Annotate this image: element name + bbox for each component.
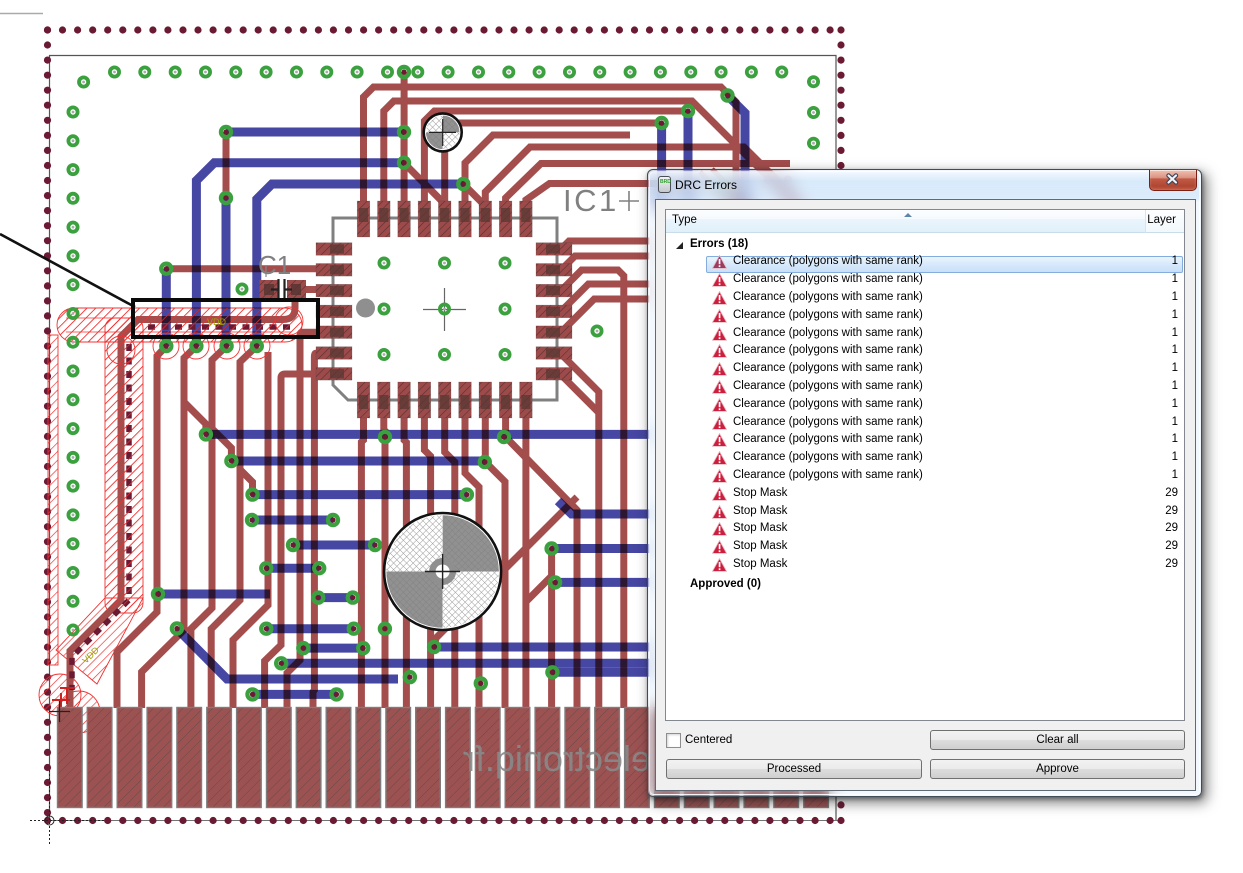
right pad row6 diag <box>553 353 599 708</box>
blue y520 <box>252 516 333 525</box>
pad top 2 <box>378 201 391 237</box>
fan F5 <box>191 346 227 708</box>
pad bottom 9 <box>520 382 533 418</box>
pad top 1 <box>357 201 370 237</box>
fan F4 <box>142 346 197 708</box>
finger 7 <box>237 708 262 808</box>
pad bottom 1 <box>357 382 370 418</box>
blue y548 <box>552 544 650 553</box>
bottom pads to fingers <box>361 412 363 708</box>
blue y628 <box>266 624 354 633</box>
wire via B-D <box>401 132 408 163</box>
finger 25 <box>774 708 799 808</box>
wire via D diagonal to pad5 <box>404 163 445 205</box>
blue y582 <box>555 578 650 587</box>
svg-text:electroniq.fr: electroniq.fr <box>463 738 651 779</box>
pad top 6 <box>459 201 472 237</box>
finger 11 <box>356 708 381 808</box>
wire top bundle L7 <box>506 164 790 206</box>
blue y597 <box>318 593 353 602</box>
finger 14 <box>446 708 471 808</box>
blue verticals into dialog <box>657 123 666 210</box>
blue y648 <box>303 644 363 653</box>
wire top bundle L4 <box>445 123 660 205</box>
wire top bundle L5 <box>465 135 630 205</box>
blue y461 <box>231 457 484 466</box>
wire via E diagonal to pad6 <box>463 184 485 206</box>
pad top 9 <box>520 201 533 237</box>
svg-text:C1: C1 <box>258 250 291 280</box>
gray dot <box>356 299 375 318</box>
pad bottom 2 <box>378 382 391 418</box>
pad left 4 <box>316 305 352 318</box>
finger 22 <box>684 708 709 808</box>
finger 12 <box>386 708 411 808</box>
right pad rows 1-5 horizontals <box>553 241 650 249</box>
wire via G to left pad row2 <box>166 265 320 272</box>
window edge artifact top-left <box>0 13 43 15</box>
svg-text:VDD: VDD <box>207 317 227 327</box>
pad left 1 <box>316 243 352 256</box>
pad bottom 4 <box>418 382 431 418</box>
wire top bundle L6 <box>485 147 800 205</box>
pad left 7 <box>316 368 352 381</box>
long diagonal branch to via (434,647) <box>434 497 577 647</box>
finger 1 <box>58 708 83 808</box>
T mark <box>52 688 74 707</box>
blue y434 <box>206 430 650 439</box>
smudge dots behind title <box>764 176 793 185</box>
large drill target <box>384 513 501 630</box>
finger 15 <box>475 708 500 808</box>
pad top 3 <box>398 201 411 237</box>
blue G down <box>162 269 171 346</box>
vias on traces <box>153 67 733 700</box>
dashed airwire <box>72 327 290 690</box>
board outline (gray) <box>50 56 837 825</box>
finger 4 <box>147 708 172 808</box>
wire top bundle L3 <box>424 111 686 205</box>
pad right 7 <box>536 368 572 381</box>
pad bottom 6 <box>459 382 472 418</box>
pad bottom 5 <box>438 382 451 418</box>
wire via A-C <box>223 132 230 198</box>
finger 10 <box>326 708 351 808</box>
fan F7 <box>233 352 268 708</box>
highlight rectangle <box>133 300 318 337</box>
pad top 4 <box>418 201 431 237</box>
vias plain <box>68 67 818 634</box>
finger 3 <box>117 708 142 808</box>
dotted board dimension border <box>44 26 845 824</box>
wire top bundle L2 <box>384 101 801 210</box>
finger 17 <box>535 708 560 808</box>
blue A-B <box>226 128 404 137</box>
blue y694 <box>253 690 337 699</box>
blue C down <box>222 198 231 346</box>
pad top 8 <box>499 201 512 237</box>
pad left 2 <box>316 264 352 277</box>
pad top 7 <box>479 201 492 237</box>
wire pad3 riser to via <box>401 72 408 205</box>
blue y672 <box>552 668 650 677</box>
pad right 3 <box>536 284 572 297</box>
pad right 1 <box>536 243 572 256</box>
capacitor C1 <box>260 280 279 299</box>
finger 24 <box>744 708 769 808</box>
left pad row7 down <box>265 374 320 708</box>
finger 26 <box>804 708 829 808</box>
blue y594 <box>158 590 270 599</box>
VDD trace C1 through band <box>70 296 295 708</box>
fan F6 <box>211 346 257 708</box>
pad bottom 3 <box>398 382 411 418</box>
blue E line <box>257 184 464 346</box>
finger 13 <box>416 708 441 808</box>
finger 19 <box>595 708 620 808</box>
mirrored silk text <box>463 738 651 779</box>
pad right 6 <box>536 347 572 360</box>
fan F3 <box>117 346 166 708</box>
origin marks <box>49 701 70 722</box>
blue y663 <box>281 659 650 668</box>
small drill target <box>424 113 462 151</box>
DRC error hatched band <box>39 308 302 733</box>
finger 16 <box>505 708 530 808</box>
diag to via (551,548) <box>526 549 552 603</box>
DRC Errors dialog <box>647 169 1202 797</box>
blue diag y680 <box>177 629 398 680</box>
blue y647 <box>434 643 650 652</box>
pad left 5 <box>316 326 352 339</box>
pad bottom 8 <box>499 382 512 418</box>
blue y568 <box>266 564 319 573</box>
center crosshair <box>423 288 466 331</box>
svg-text:IC1: IC1 <box>563 183 619 218</box>
IC1 outline <box>333 218 557 400</box>
wire pad9 stub <box>526 184 700 206</box>
C1 right pad to IC row3 <box>300 286 320 293</box>
blue D line <box>196 163 404 346</box>
blue y514 <box>558 501 650 514</box>
wire top bundle L1 <box>364 87 737 210</box>
pad left 6 <box>316 347 352 360</box>
via(555,582) down to finger <box>552 582 556 708</box>
pad right 5 <box>536 326 572 339</box>
callout line <box>0 234 135 307</box>
finger 23 <box>714 708 739 808</box>
left pad row5 down <box>287 332 320 708</box>
pad left 3 <box>316 284 352 297</box>
finger 18 <box>565 708 590 808</box>
finger 6 <box>207 708 232 808</box>
via red tails <box>184 402 206 434</box>
pad right 4 <box>536 305 572 318</box>
finger 9 <box>296 708 321 808</box>
finger 8 <box>267 708 292 808</box>
pad top 5 <box>438 201 451 237</box>
pad right 2 <box>536 264 572 277</box>
finger 21 <box>655 708 680 808</box>
right pad row7 diag <box>553 374 599 413</box>
behind-title smudges <box>700 169 752 212</box>
pad bottom 7 <box>479 382 492 418</box>
connector fingers <box>58 708 829 808</box>
left pad row6 down <box>313 353 320 708</box>
band hatch overlay <box>57 308 302 608</box>
finger 2 <box>87 708 112 808</box>
blue y494 <box>253 490 467 499</box>
finger 5 <box>177 708 202 808</box>
finger 20 <box>625 708 650 808</box>
blue y545 <box>293 541 375 550</box>
